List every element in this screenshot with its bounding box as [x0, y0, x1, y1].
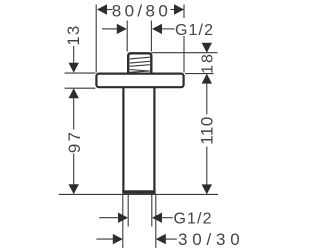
- bottom extension line inner right: [151, 195, 153, 227]
- plate extension line bottom-left: [65, 87, 96, 89]
- svg-text:G1/2: G1/2: [175, 22, 214, 39]
- dimension 18: [199, 43, 216, 74]
- pipe left side: [122, 87, 124, 192]
- svg-text:97: 97: [65, 130, 84, 153]
- svg-text:18: 18: [199, 52, 216, 74]
- svg-text:110: 110: [197, 116, 216, 145]
- svg-text:30/30: 30/30: [178, 230, 245, 249]
- svg-text:80/80: 80/80: [112, 2, 172, 21]
- threaded stub G1/2 outline: [128, 53, 151, 74]
- svg-text:13: 13: [65, 24, 83, 45]
- bottom extension line outer left: [122, 195, 124, 248]
- dimension 13: [65, 24, 83, 72]
- dimension G1/2 bottom: [99, 211, 212, 228]
- ceiling plate: [96, 74, 183, 88]
- plate-top extension line right: [185, 73, 214, 75]
- dimension G1/2 top: [102, 22, 214, 39]
- dimension 110: [197, 74, 216, 195]
- dimension 80/80: [97, 2, 184, 21]
- bottom extension line inner left: [127, 195, 129, 227]
- pipe bottom cap: [122, 190, 155, 194]
- thread hatch lines: [130, 57, 150, 72]
- plate extension line top-left: [65, 72, 96, 74]
- extension line 80/80 left: [95, 5, 97, 73]
- extension line 80/80 right (gap at G1/2 text): [183, 5, 185, 19]
- svg-text:G1/2: G1/2: [174, 211, 213, 228]
- stub extension line left: [126, 21, 128, 52]
- bottom extension line outer right: [155, 195, 157, 248]
- dimension 97: [65, 88, 84, 194]
- stub-top extension line right: [152, 52, 218, 54]
- pipe right side: [153, 87, 155, 192]
- dimension 30/30: [96, 230, 244, 249]
- stub extension line right: [150, 21, 152, 52]
- pipe-bottom extension line: [59, 193, 218, 195]
